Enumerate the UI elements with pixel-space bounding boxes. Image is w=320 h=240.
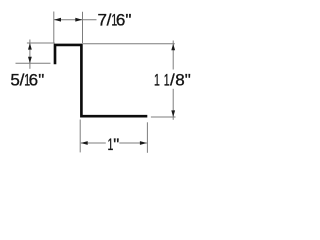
extension line bottom (5/16 dim)	[16, 62, 51, 64]
extension line bottom (1 1/8 dim)	[151, 116, 176, 118]
svg-text:1: 1	[24, 70, 30, 89]
arrow right 1	[140, 141, 147, 145]
arrow up 5/16	[28, 43, 32, 50]
svg-text:": "	[113, 135, 119, 154]
arrow left 1	[81, 141, 88, 145]
extension line top (5/16 dim)	[27, 42, 55, 44]
extension line right (1 dim)	[146, 122, 148, 153]
dimension line lower 1 1/8	[172, 89, 174, 120]
svg-text:/8": /8"	[170, 71, 191, 90]
arrow right 7/16	[75, 18, 82, 22]
arrow left 7/16	[54, 18, 61, 22]
arrow down 5/16	[28, 57, 32, 64]
dimension line 7/16	[54, 19, 96, 21]
svg-text:1: 1	[164, 70, 170, 89]
dimension line 1 left segment	[81, 142, 106, 144]
arrow down 1 1/8	[171, 110, 175, 117]
profile outline (flashing cross-section)	[55, 45, 147, 116]
dimension line 5/16	[29, 40, 31, 69]
arrow up 1 1/8	[171, 44, 175, 51]
extension line left (7/16 dim)	[53, 12, 55, 44]
extension line top (1 1/8 dim)	[83, 43, 175, 45]
dimension line 1 right segment	[119, 142, 147, 144]
svg-text:1: 1	[154, 70, 160, 89]
dimension line upper 1 1/8	[172, 41, 174, 70]
svg-text:1: 1	[108, 134, 114, 153]
svg-text:1: 1	[111, 10, 117, 29]
extension line right (7/16 dim)	[82, 12, 84, 43]
extension line left (1 dim)	[79, 120, 81, 153]
